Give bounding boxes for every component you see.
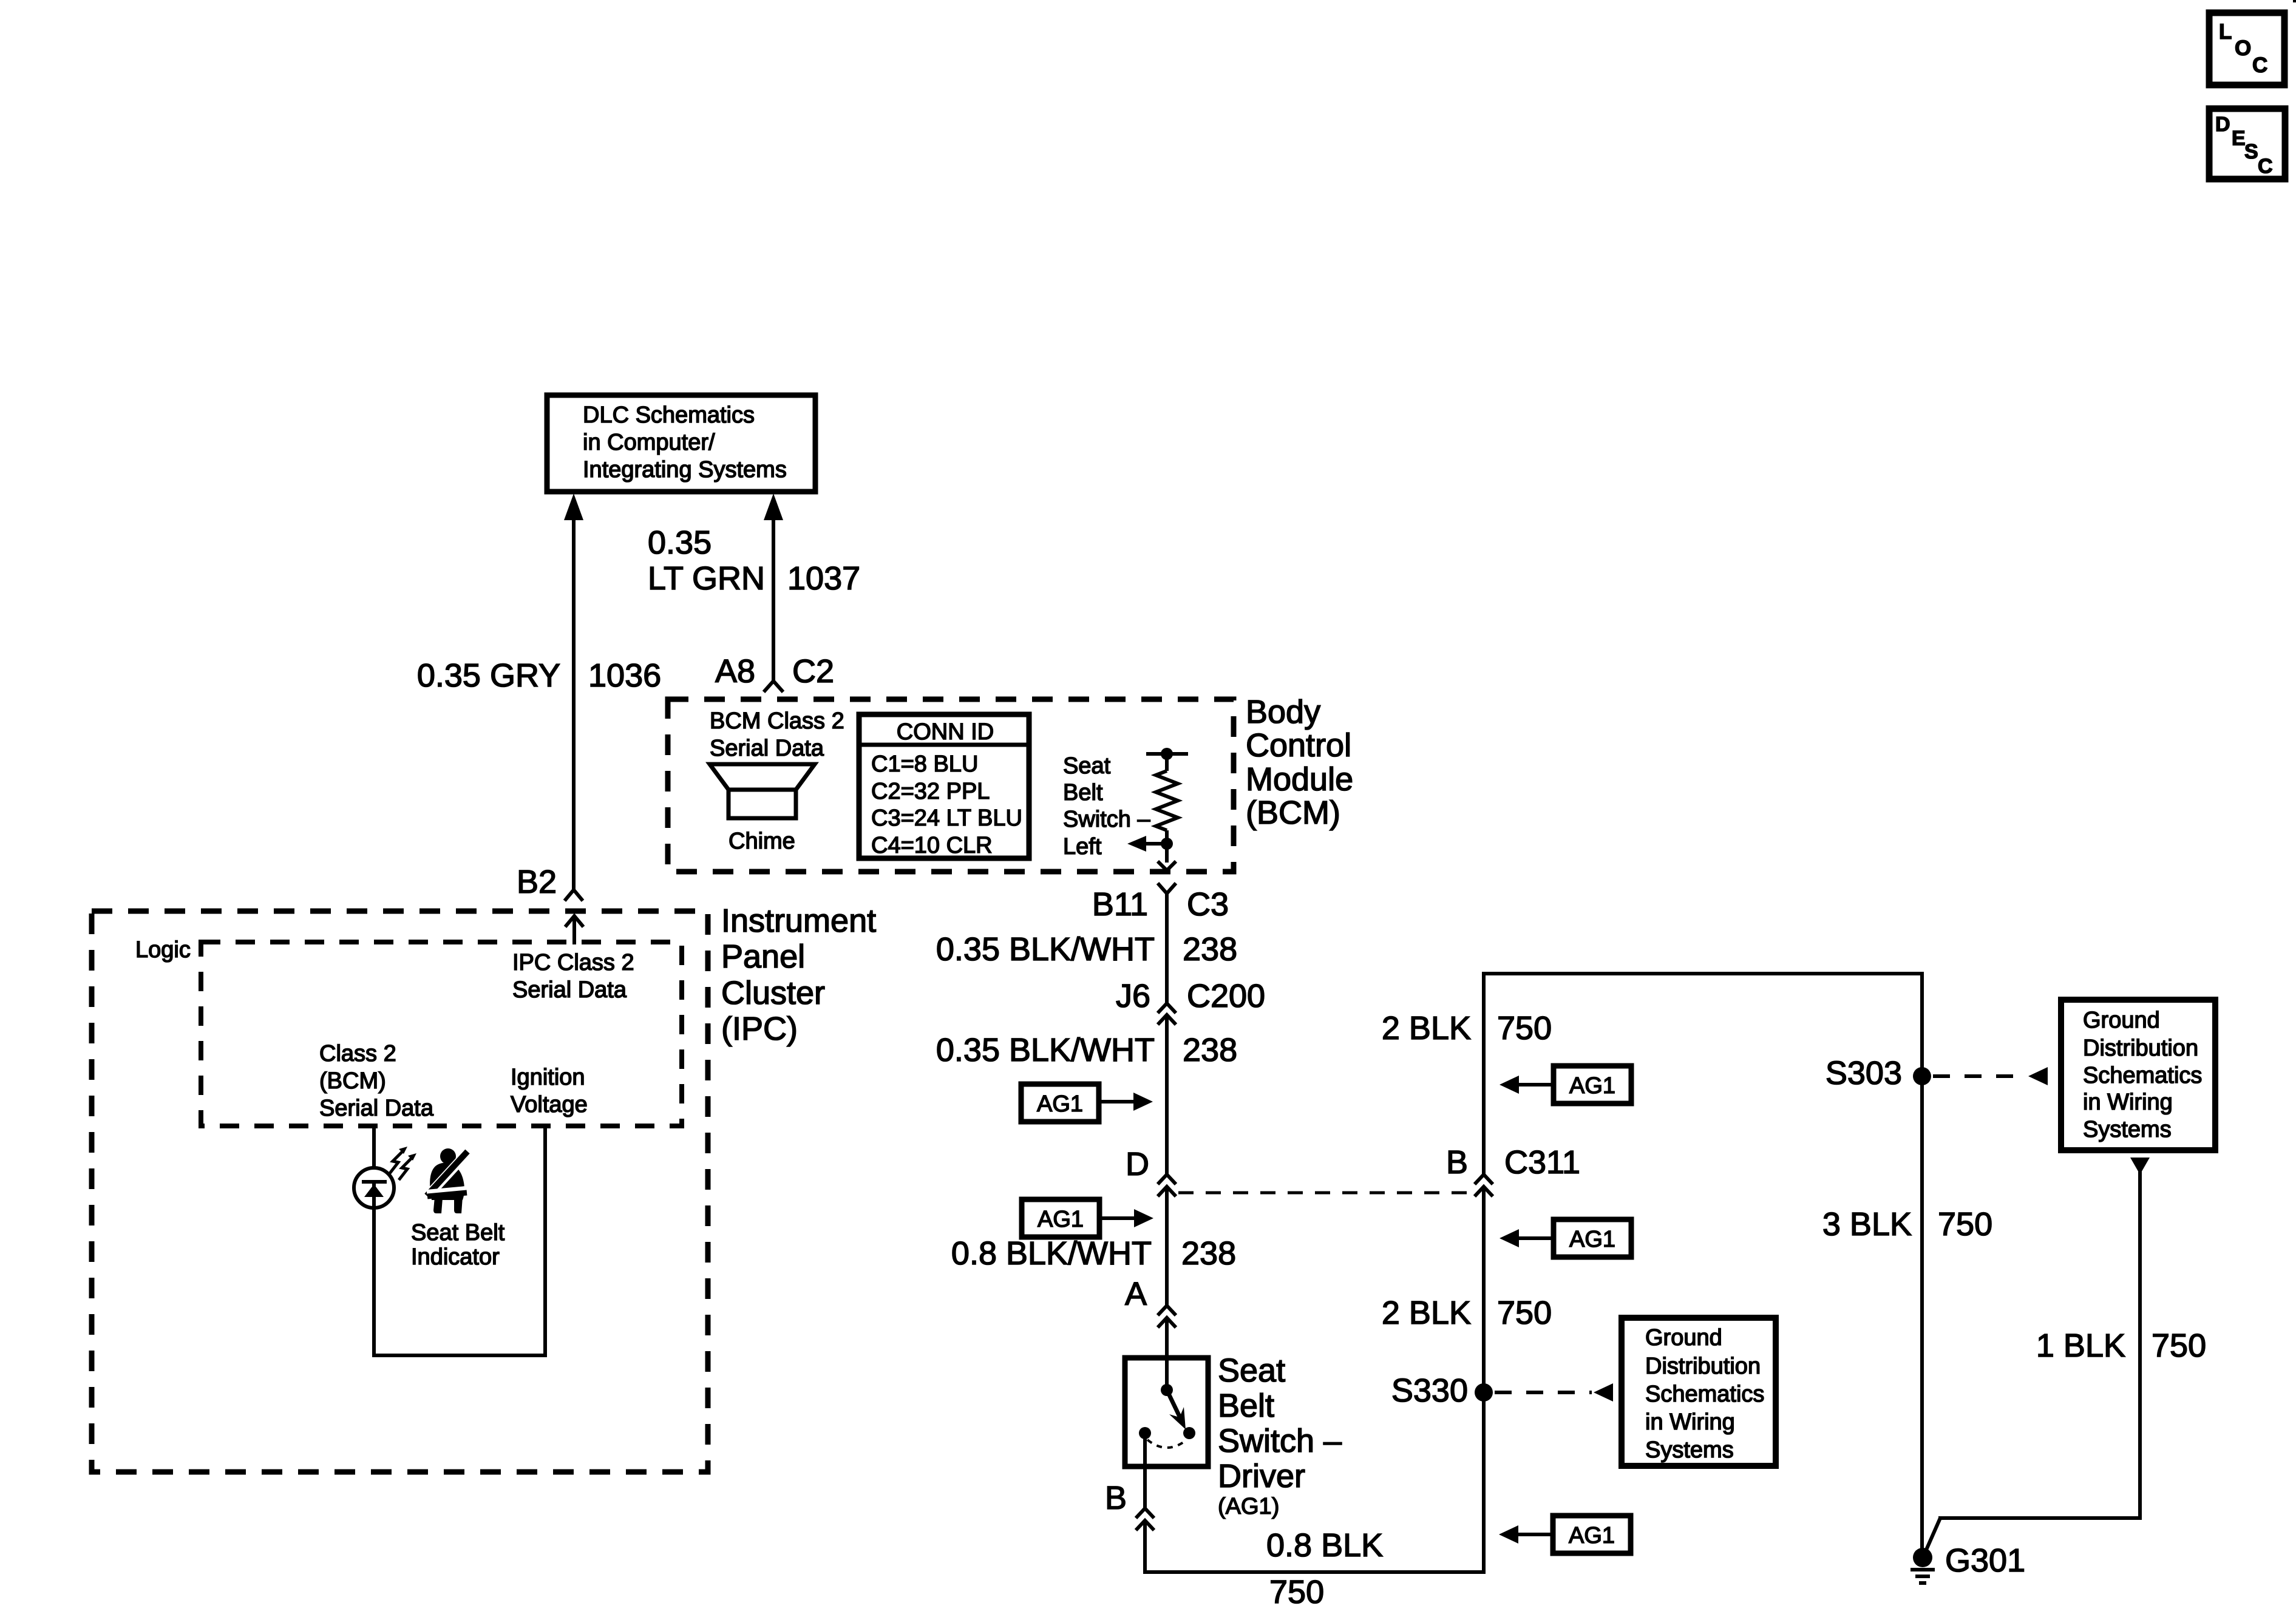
logic dashed box — [201, 942, 682, 1126]
svg-text:C3=24 LT BLU: C3=24 LT BLU — [871, 805, 1022, 831]
svg-text:750: 750 — [1269, 1574, 1324, 1610]
svg-text:Body: Body — [1246, 694, 1320, 730]
wire 3 BLK 750 (S303 to G301) — [1920, 974, 1924, 1558]
switch blade arrow — [1167, 1390, 1186, 1429]
arrow into logic (IPC Class 2 serial data) — [565, 916, 583, 944]
node S330 — [1475, 1383, 1493, 1402]
svg-text:238: 238 — [1183, 1032, 1237, 1068]
svg-text:Distribution: Distribution — [2083, 1036, 2198, 1061]
svg-text:C3: C3 — [1187, 886, 1229, 923]
resistor (seat belt switch left sense) top bar — [1146, 752, 1188, 756]
svg-text:J6: J6 — [1116, 978, 1150, 1014]
CONN ID table — [859, 714, 1029, 858]
wire A to switch — [1165, 1318, 1169, 1390]
wire stub — [1165, 830, 1169, 844]
connector B2 (male chevron at IPC edge) — [565, 890, 583, 901]
wire stub — [1165, 754, 1169, 771]
svg-text:C: C — [2258, 155, 2273, 178]
wire 0.35 BLK/WHT 238 (B11 to C200) — [1165, 893, 1169, 1003]
svg-text:C4=10 CLR: C4=10 CLR — [871, 833, 993, 858]
dashed link S330 to ground distribution — [1495, 1383, 1613, 1402]
wire 0.35 BLK/WHT 238 (C200 to D) — [1165, 1015, 1169, 1175]
label Seat Belt Switch - Driver (AG1) — [1218, 1352, 1342, 1519]
svg-text:AG1: AG1 — [1037, 1091, 1083, 1117]
label Seat Belt Switch - Left — [1063, 753, 1150, 859]
ground distribution box (S330) — [1622, 1318, 1776, 1466]
label Ignition Voltage — [511, 1065, 588, 1117]
svg-text:Serial Data: Serial Data — [319, 1096, 434, 1121]
connector A at switch (in-line) — [1158, 1306, 1176, 1327]
svg-text:A8: A8 — [715, 653, 755, 690]
svg-text:3 BLK: 3 BLK — [1822, 1206, 1912, 1242]
svg-text:0.8 BLK: 0.8 BLK — [1266, 1527, 1383, 1564]
svg-text:Logic: Logic — [135, 937, 191, 963]
svg-text:Indicator: Indicator — [411, 1244, 500, 1270]
DESC reference box — [2209, 109, 2285, 179]
AG1 callout box 3 — [1500, 1066, 1631, 1103]
svg-text:Seat: Seat — [1063, 753, 1111, 779]
ground distribution box (S303) — [2061, 1000, 2215, 1150]
wire 1 BLK 750 (ground dist to G301) — [1924, 1158, 2150, 1554]
svg-text:C311: C311 — [1504, 1144, 1580, 1181]
AG1 callout box 5 — [1499, 1516, 1631, 1553]
wire LED to ignition voltage loop — [372, 1126, 547, 1355]
svg-text:Distribution: Distribution — [1645, 1354, 1761, 1379]
connector C2 pin A8 (male chevron) — [715, 653, 834, 692]
svg-text:Integrating Systems: Integrating Systems — [583, 457, 787, 483]
wire to BCM pin B11 — [1165, 844, 1169, 863]
svg-text:(AG1): (AG1) — [1218, 1494, 1279, 1519]
LED flash arrows — [390, 1147, 416, 1180]
IPC dashed module box — [92, 911, 708, 1472]
svg-text:D: D — [1126, 1146, 1149, 1182]
wire logic to LED — [372, 1126, 376, 1170]
LED seat belt indicator — [354, 1168, 394, 1208]
label Seat Belt Indicator — [411, 1220, 505, 1270]
svg-text:AG1: AG1 — [1038, 1207, 1084, 1232]
switch top contact — [1161, 1384, 1173, 1396]
svg-text:Ground: Ground — [2083, 1008, 2160, 1033]
svg-text:2 BLK: 2 BLK — [1382, 1010, 1471, 1046]
AG1 callout box 1 — [1021, 1084, 1153, 1122]
svg-text:AG1: AG1 — [1569, 1227, 1615, 1252]
svg-text:C: C — [2252, 53, 2267, 77]
svg-text:D: D — [2215, 113, 2230, 136]
svg-text:in Computer/: in Computer/ — [583, 430, 715, 455]
resistor zigzag — [1156, 771, 1178, 830]
LOC reference box — [2209, 13, 2284, 85]
svg-text:Seat Belt: Seat Belt — [411, 1220, 505, 1246]
svg-text:Belt: Belt — [1218, 1388, 1274, 1424]
DLC Schematics reference box — [547, 395, 815, 492]
connector C311 pin B (in-line) — [1475, 1175, 1493, 1196]
svg-text:C1=8 BLU: C1=8 BLU — [871, 751, 978, 777]
wire 0.8 BLK 750 (B to S330 leg) — [1143, 1520, 1486, 1572]
svg-text:Switch –: Switch – — [1063, 807, 1150, 832]
svg-text:Schematics: Schematics — [1645, 1381, 1764, 1407]
switch left contact — [1139, 1427, 1151, 1439]
page corner mark — [2293, 0, 2296, 2]
svg-text:O: O — [2235, 36, 2251, 60]
svg-text:BCM Class 2: BCM Class 2 — [710, 708, 844, 734]
connector C311-left pin D (in-line) — [1158, 1175, 1176, 1196]
svg-text:AG1: AG1 — [1569, 1523, 1615, 1548]
svg-text:C200: C200 — [1187, 978, 1265, 1014]
svg-text:238: 238 — [1183, 931, 1237, 968]
wire 0.8 BLK/WHT 238 (D to A) — [1165, 1187, 1169, 1306]
svg-text:Panel: Panel — [721, 938, 805, 975]
svg-text:E: E — [2232, 127, 2246, 150]
svg-text:G301: G301 — [1945, 1542, 2025, 1579]
svg-text:Class 2: Class 2 — [319, 1041, 396, 1066]
switch travel dashed arc — [1147, 1440, 1187, 1448]
svg-text:0.35 BLK/WHT: 0.35 BLK/WHT — [936, 1032, 1155, 1068]
svg-text:Voltage: Voltage — [511, 1092, 588, 1117]
svg-text:238: 238 — [1181, 1235, 1236, 1272]
svg-text:C2: C2 — [792, 653, 834, 690]
chime speaker symbol — [710, 764, 815, 854]
svg-text:0.8 BLK/WHT: 0.8 BLK/WHT — [951, 1235, 1152, 1272]
wire switch to B — [1143, 1433, 1147, 1508]
svg-text:Switch –: Switch – — [1218, 1423, 1342, 1459]
svg-text:B: B — [1105, 1480, 1127, 1516]
svg-text:Serial Data: Serial Data — [512, 977, 627, 1003]
svg-text:750: 750 — [1938, 1206, 1992, 1242]
svg-text:750: 750 — [1497, 1010, 1552, 1046]
svg-text:in Wiring: in Wiring — [2083, 1090, 2173, 1115]
svg-text:S303: S303 — [1826, 1055, 1902, 1091]
label Class 2 (BCM) Serial Data — [319, 1041, 434, 1121]
svg-text:Left: Left — [1063, 834, 1102, 859]
svg-text:2 BLK: 2 BLK — [1382, 1295, 1471, 1331]
connector C3 pin B11 (female chevron) — [1092, 883, 1229, 923]
svg-text:Systems: Systems — [2083, 1117, 2172, 1142]
AG1 callout box 4 — [1500, 1219, 1631, 1257]
svg-text:in Wiring: in Wiring — [1645, 1409, 1735, 1435]
label IPC Class 2 Serial Data — [512, 950, 634, 1003]
svg-text:Ignition: Ignition — [511, 1065, 585, 1090]
node wiper junction — [1161, 838, 1173, 850]
svg-text:1036: 1036 — [588, 657, 661, 694]
seat belt person icon — [426, 1148, 467, 1213]
wire 2 BLK 750 (C311 to S330) — [1482, 1187, 1486, 1572]
connector C200 pin J6 (in-line) — [1116, 978, 1265, 1025]
svg-text:0.35: 0.35 — [648, 524, 712, 561]
svg-text:B: B — [1446, 1144, 1468, 1181]
svg-text:Control: Control — [1246, 727, 1351, 764]
svg-text:A: A — [1125, 1276, 1147, 1312]
svg-text:(BCM): (BCM) — [1246, 795, 1340, 831]
svg-text:B11: B11 — [1092, 886, 1148, 923]
label BCM Class 2 Serial Data — [710, 708, 844, 761]
svg-text:(IPC): (IPC) — [721, 1011, 798, 1047]
svg-text:Ground: Ground — [1645, 1325, 1722, 1351]
wire 0.35 LT GRN 1037 (DLC to BCM A8/C2) — [764, 493, 783, 681]
dashed link S303 to ground distribution — [1933, 1067, 2048, 1085]
svg-text:750: 750 — [1497, 1295, 1552, 1331]
svg-text:Chime: Chime — [729, 829, 795, 854]
seat belt switch driver box — [1125, 1358, 1208, 1466]
BCM dashed module box — [668, 699, 1234, 872]
svg-text:0.35 GRY: 0.35 GRY — [417, 657, 560, 694]
ground G301 — [1911, 1548, 1935, 1583]
svg-text:L: L — [2219, 20, 2232, 44]
svg-text:Schematics: Schematics — [2083, 1063, 2202, 1088]
svg-text:S: S — [2244, 140, 2258, 163]
svg-text:DLC Schematics: DLC Schematics — [583, 402, 755, 428]
svg-text:Instrument: Instrument — [721, 903, 876, 939]
svg-text:Seat: Seat — [1218, 1352, 1285, 1389]
svg-text:1 BLK: 1 BLK — [2036, 1327, 2125, 1364]
label 0.35 LT GRN — [648, 524, 765, 597]
svg-text:Cluster: Cluster — [721, 975, 825, 1011]
svg-text:LT GRN: LT GRN — [648, 560, 765, 597]
svg-text:AG1: AG1 — [1569, 1073, 1615, 1099]
label Body Control Module (BCM) — [1246, 694, 1353, 831]
dashed link D to C311 — [1178, 1192, 1475, 1195]
svg-text:750: 750 — [2152, 1327, 2206, 1364]
svg-text:Module: Module — [1246, 761, 1353, 798]
wire 2 BLK 750 top run (S303 branch) — [1482, 972, 1924, 1175]
svg-text:C2=32 PPL: C2=32 PPL — [871, 779, 990, 804]
switch right contact — [1183, 1427, 1195, 1439]
arrowhead down at BCM edge — [1158, 861, 1176, 870]
node top junction — [1161, 748, 1173, 760]
label Instrument Panel Cluster (IPC) — [721, 903, 876, 1047]
svg-text:IPC Class 2: IPC Class 2 — [512, 950, 634, 975]
wire 0.35 GRY 1036 (DLC to IPC B2) — [564, 493, 583, 890]
svg-text:Driver: Driver — [1218, 1458, 1305, 1494]
svg-text:CONN ID: CONN ID — [897, 719, 994, 745]
svg-text:(BCM): (BCM) — [319, 1068, 386, 1094]
AG1 callout box 2 — [1022, 1199, 1153, 1237]
svg-text:1037: 1037 — [787, 560, 860, 597]
svg-text:B2: B2 — [517, 864, 557, 900]
svg-text:0.35 BLK/WHT: 0.35 BLK/WHT — [936, 931, 1155, 968]
svg-text:Belt: Belt — [1063, 780, 1103, 805]
svg-text:Serial Data: Serial Data — [710, 736, 824, 761]
svg-text:Systems: Systems — [1645, 1437, 1734, 1463]
node S303 — [1913, 1067, 1931, 1085]
switch wiper arrow — [1127, 836, 1167, 852]
connector B at switch (in-line) — [1136, 1508, 1154, 1530]
svg-text:S330: S330 — [1391, 1372, 1468, 1409]
